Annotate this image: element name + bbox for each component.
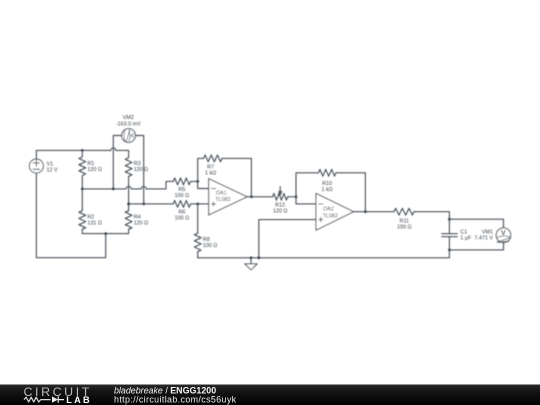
resistor R8 [194, 204, 217, 258]
op-amp OA2 [316, 193, 354, 230]
svg-text:V1: V1 [47, 161, 54, 167]
svg-text:R7: R7 [207, 164, 214, 170]
svg-text:R4: R4 [134, 215, 141, 221]
resistor R3 [125, 158, 148, 204]
wire VM2 right lead down to node C [135, 136, 145, 206]
svg-text:100 Ω: 100 Ω [175, 193, 190, 199]
svg-text:C1: C1 [460, 229, 467, 235]
resistor R2 [79, 189, 102, 234]
wire VM1 top branch [449, 219, 503, 228]
wire OA2 plus input to ground rail [259, 220, 316, 258]
footer bar [0, 385, 540, 405]
junction dot R12/R10/OA2-minus [295, 195, 298, 198]
svg-text:100 Ω: 100 Ω [175, 216, 190, 222]
svg-text:131 Ω: 131 Ω [87, 221, 102, 227]
op-amp OA1 [209, 179, 247, 215]
resistor R7 feedback [198, 155, 252, 197]
node C wire with R6 inline [129, 203, 174, 205]
wire V1 top rail to R1/R3 (hop over VM2 left lead) [36, 148, 128, 159]
ground symbol [245, 258, 257, 270]
junction dot C1 top [448, 218, 451, 221]
footer credit line [114, 385, 216, 395]
junction dot OA2 output [364, 210, 367, 213]
wire bridge bottom [82, 233, 128, 235]
wire node B horizontal (hops over R3 and VM2-right verticals) [82, 181, 173, 189]
resistor R6 [173, 201, 208, 222]
svg-text:http://circuitlab.com/cs56uyk: http://circuitlab.com/cs56uyk [114, 395, 237, 405]
svg-text:-163.0 mV: -163.0 mV [116, 121, 141, 127]
svg-text:V: V [501, 228, 506, 237]
svg-text:1 kΩ: 1 kΩ [205, 171, 216, 177]
svg-text:R12: R12 [275, 202, 285, 208]
resistor R10 feedback [296, 169, 365, 211]
svg-text:LAB: LAB [66, 395, 91, 405]
resistor R4 [125, 204, 148, 234]
wire to OA2 inverting input [296, 197, 316, 204]
svg-text:R11: R11 [400, 218, 410, 224]
wire to OA1 inverting input [198, 181, 209, 188]
junction dot bridge bottom [104, 232, 107, 235]
svg-text:OA2: OA2 [323, 207, 334, 213]
resistor R1 [79, 150, 102, 189]
resistor R5 [173, 178, 197, 199]
junction dot R6/R8/plus-input [196, 203, 199, 206]
svg-text:TL082: TL082 [215, 197, 230, 203]
svg-text:OA1: OA1 [216, 190, 227, 196]
node B junction dot at R1 top [81, 149, 84, 152]
svg-text:R2: R2 [87, 215, 94, 221]
wire VM1 bottom branch [449, 243, 503, 250]
junction dot OA2 plus rail [257, 256, 260, 259]
svg-text:120 Ω: 120 Ω [134, 221, 149, 227]
voltmeter VM2 [116, 115, 141, 142]
svg-text:1 μF: 1 μF [460, 236, 472, 242]
junction dot R3/R4/node C [127, 203, 130, 206]
svg-text:R1: R1 [87, 161, 94, 167]
junction dot R5/R7/minus-input [196, 180, 199, 183]
svg-text:R10: R10 [322, 181, 332, 187]
ground rail [198, 250, 450, 258]
svg-text:R6: R6 [178, 209, 185, 215]
footer url line [114, 395, 237, 405]
wire bottom return to V1 [36, 173, 105, 258]
svg-text:7.471 V: 7.471 V [474, 236, 493, 242]
CircuitLab logo wordmark [24, 385, 92, 399]
svg-text:120 Ω: 120 Ω [273, 209, 288, 215]
junction dot R1/R2/nodeB [81, 188, 84, 191]
svg-text:120 Ω: 120 Ω [134, 167, 149, 173]
resistor R11 [394, 208, 449, 230]
svg-text:120 Ω: 120 Ω [87, 167, 102, 173]
svg-text:100 Ω: 100 Ω [203, 243, 218, 249]
svg-text:100 Ω: 100 Ω [397, 225, 412, 231]
wire OA2 output to R11 [354, 211, 395, 213]
svg-text:R8: R8 [203, 237, 210, 243]
svg-text:1 kΩ: 1 kΩ [321, 187, 332, 193]
voltage source V1 [29, 159, 58, 174]
svg-text:R3: R3 [134, 161, 141, 167]
logo resistor squiggle and diode [24, 396, 64, 402]
svg-text:VM2: VM2 [123, 115, 134, 121]
wire OA1 output to R12 [247, 196, 273, 198]
voltmeter VM1 [474, 228, 510, 243]
svg-text:R5: R5 [178, 187, 185, 193]
capacitor C1 [442, 219, 472, 250]
junction dot OA1 output [250, 195, 253, 198]
wire VM2 left lead down to node B [112, 136, 122, 191]
junction dot ground stem [250, 256, 253, 259]
svg-text:12 V: 12 V [47, 168, 58, 174]
potentiometer R12 [273, 187, 296, 215]
svg-text:TL082: TL082 [323, 213, 338, 219]
svg-text:VM1: VM1 [482, 229, 493, 235]
logo LAB text [66, 395, 91, 405]
junction dot C1 bottom [448, 249, 451, 252]
